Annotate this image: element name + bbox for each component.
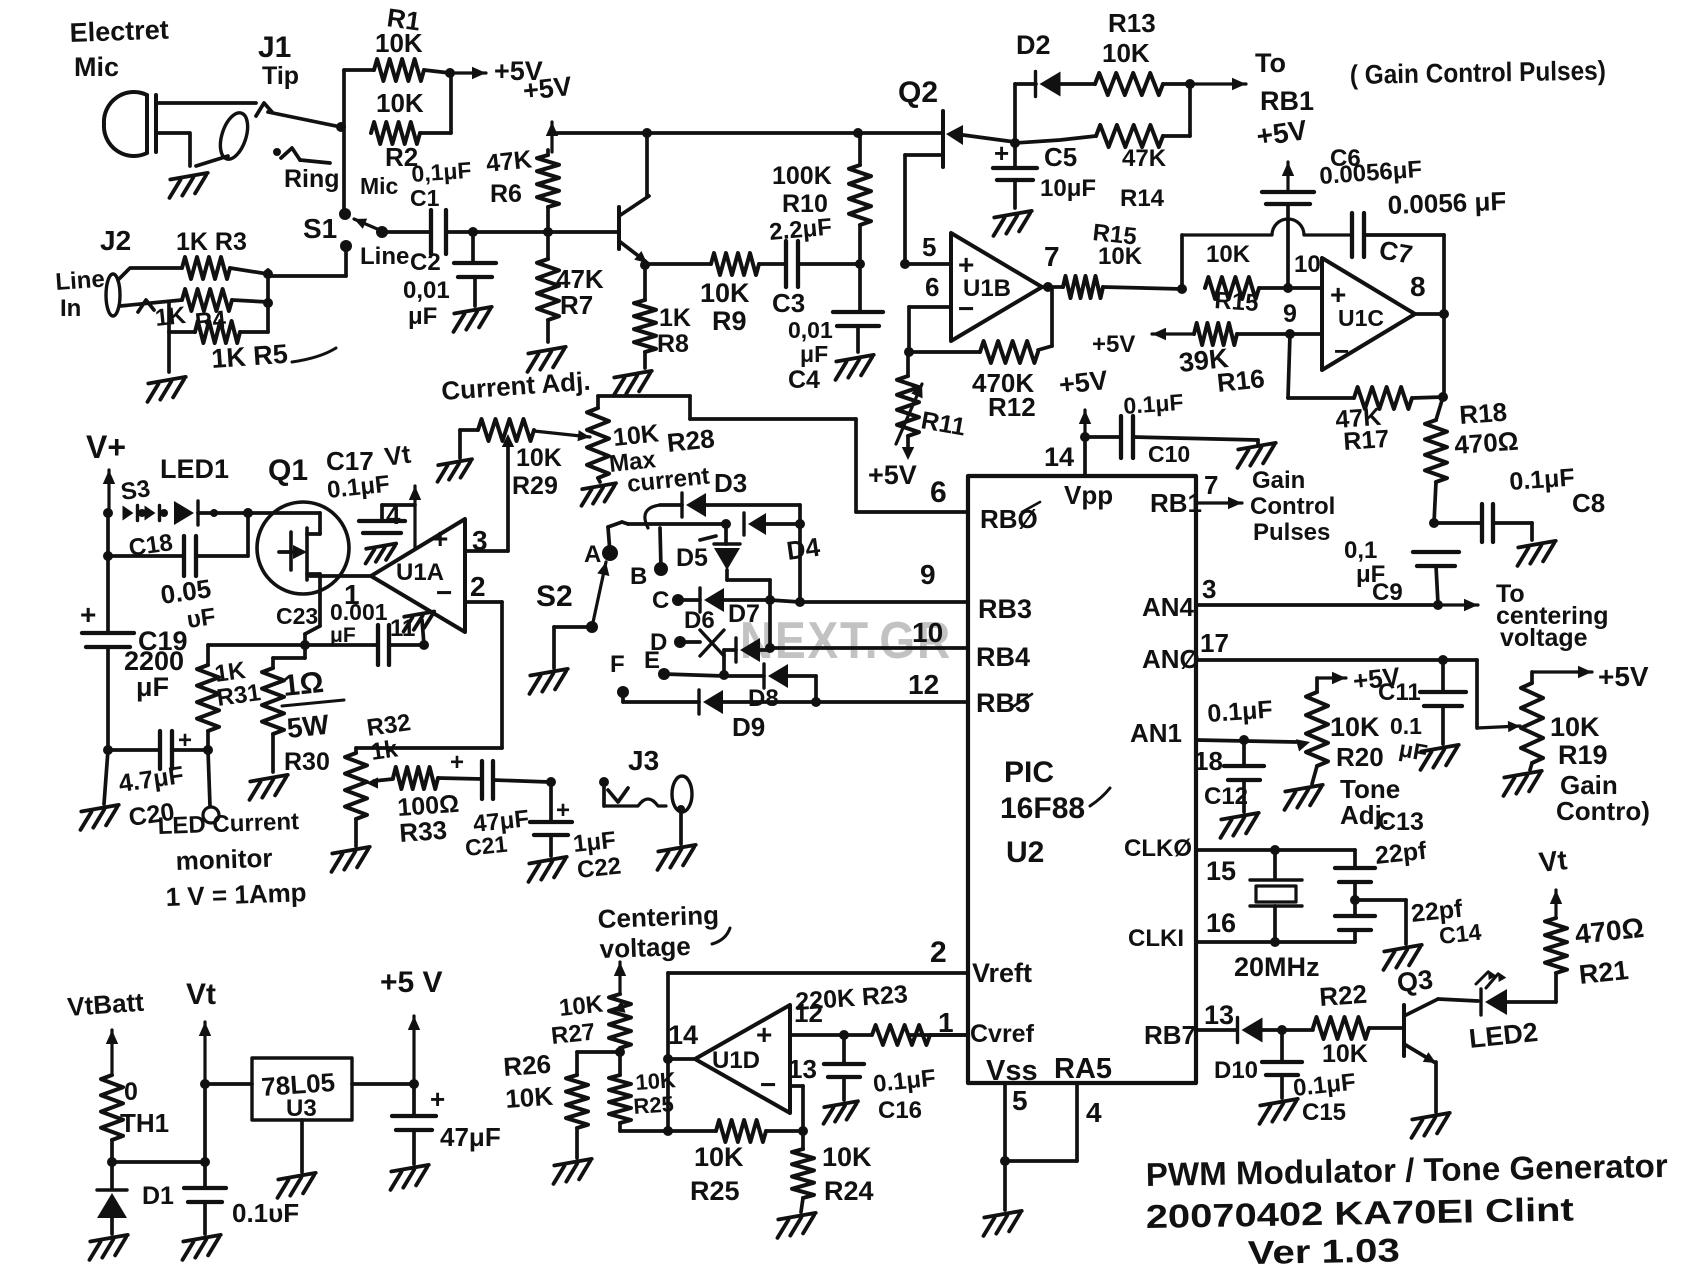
wire D2 branch up [1013, 84, 1017, 143]
resistor R15b [1205, 277, 1259, 299]
node R10 top rail [853, 128, 863, 138]
wire J2 tip to R3 [118, 268, 182, 280]
svg-text:0,01: 0,01 [788, 317, 833, 343]
svg-text:C4: C4 [788, 366, 820, 394]
capacitor C15 [1280, 1030, 1284, 1060]
wire pin12 [790, 1033, 844, 1037]
svg-text:7: 7 [1204, 470, 1218, 500]
svg-text:R6: R6 [490, 180, 522, 208]
J1 ring contact [273, 148, 281, 156]
svg-text:D9: D9 [732, 712, 765, 742]
svg-text:−: − [1334, 336, 1349, 366]
capacitor C4 [858, 264, 862, 310]
capacitor C9 [1413, 550, 1459, 554]
node U1C output [1439, 309, 1449, 319]
wire C7 to output node [1442, 235, 1446, 314]
thermistor TH1 [101, 1075, 123, 1140]
J1 tip contact [256, 103, 272, 116]
node Q collector rail [642, 128, 652, 138]
svg-text:RB4: RB4 [976, 642, 1030, 672]
wire C7 rail with hop [1182, 219, 1352, 235]
ground S2 [526, 669, 570, 694]
capacitor C1 [430, 230, 431, 234]
capacitor C7 [1350, 213, 1354, 257]
resistor R4 [182, 289, 232, 311]
svg-text:10K: 10K [516, 444, 562, 472]
svg-text:Cvref: Cvref [970, 1020, 1035, 1048]
svg-text:22pf: 22pf [1374, 837, 1429, 870]
svg-text:0.0056 μF: 0.0056 μF [1387, 186, 1507, 220]
svg-text:R13: R13 [1108, 8, 1156, 38]
svg-text:ANØ: ANØ [1142, 644, 1200, 674]
svg-text:R16: R16 [1215, 363, 1266, 398]
ground C17 [363, 543, 399, 563]
resistor R7 [537, 259, 559, 320]
svg-text:Vt: Vt [1537, 844, 1568, 878]
arrow Vt [203, 1022, 206, 1084]
svg-text:U3: U3 [286, 1095, 317, 1122]
node C18 column [243, 508, 253, 518]
svg-text:R9: R9 [712, 306, 747, 336]
svg-text:9: 9 [1283, 300, 1297, 328]
resistor R31 [203, 745, 213, 755]
ground C22 [525, 857, 569, 882]
ground regulator [274, 1173, 318, 1198]
ground R28 [579, 483, 619, 506]
wire emitter to R9 [645, 262, 711, 266]
wire CLKI row [1196, 940, 1355, 944]
wire V+ rail to ground [104, 750, 108, 804]
svg-text:10: 10 [1294, 251, 1321, 278]
wire RB4 row [770, 646, 968, 650]
wire bottom rail [620, 1129, 716, 1133]
svg-text:C3: C3 [772, 288, 805, 318]
svg-text:voltage: voltage [599, 931, 691, 964]
svg-text:0: 0 [124, 1078, 138, 1106]
wire regulator ground [300, 1120, 304, 1172]
svg-text:Vss: Vss [986, 1055, 1038, 1087]
node C20 row [103, 745, 113, 755]
svg-text:0,01: 0,01 [403, 277, 450, 304]
arrow To RB1 [1190, 82, 1246, 85]
node C row [765, 595, 775, 605]
ground C4 [832, 355, 876, 380]
node C13/C14 [1350, 895, 1360, 905]
diode D10 [1242, 1018, 1263, 1043]
svg-text:−: − [760, 1069, 776, 1100]
svg-text:R33: R33 [398, 815, 448, 848]
ground 47uF [387, 1165, 431, 1190]
node signal/R6/R7 [543, 227, 553, 237]
ground Q3 [1408, 1113, 1452, 1138]
svg-text:Electret: Electret [69, 15, 169, 48]
svg-text:U2: U2 [1006, 836, 1044, 869]
svg-text:AN4: AN4 [1142, 592, 1195, 622]
svg-text:RB1: RB1 [1260, 86, 1314, 116]
wire +5V rail from R6 column [550, 131, 647, 135]
svg-text:3: 3 [1202, 574, 1216, 604]
svg-text:47K: 47K [1122, 145, 1167, 172]
node R17/R18 [1438, 392, 1448, 402]
resistor R17 feedback [1288, 334, 1290, 398]
node RB5 [811, 697, 821, 707]
svg-text:1K R5: 1K R5 [210, 339, 288, 374]
svg-text:Vreft: Vreft [972, 958, 1032, 988]
node Q emitter [640, 260, 650, 270]
svg-text:20MHz: 20MHz [1234, 952, 1320, 982]
resistor R14 row [1015, 136, 1096, 143]
node C22 [546, 777, 556, 787]
svg-text:S3: S3 [119, 475, 152, 506]
svg-text:D3: D3 [714, 468, 747, 498]
svg-text:RB7: RB7 [1144, 1020, 1196, 1050]
capacitor C6 [1262, 190, 1314, 194]
svg-text:4: 4 [1086, 1097, 1102, 1128]
crystal Y1 20MHz [1273, 850, 1277, 878]
ground R30 [246, 775, 290, 800]
wire regulator output [352, 1082, 414, 1086]
svg-text:10K: 10K [1550, 712, 1600, 742]
resistor R24 [801, 1131, 805, 1149]
pot R28 [587, 408, 609, 478]
resistor R10 [849, 165, 871, 225]
node D10/C15 [1277, 1025, 1287, 1035]
svg-text:CLKI: CLKI [1128, 925, 1184, 952]
capacitor C16 [842, 1035, 846, 1062]
arrow +5V supply [412, 1016, 415, 1084]
svg-text:47μF: 47μF [440, 1122, 501, 1152]
wire pin10 to U1C [1288, 286, 1322, 290]
svg-text:1K R3: 1K R3 [176, 228, 247, 256]
svg-text:Vt: Vt [186, 978, 216, 1011]
svg-text:10K: 10K [822, 1142, 872, 1172]
svg-text:J1: J1 [258, 31, 291, 64]
capacitor C8 [1434, 521, 1482, 525]
svg-text:U1C: U1C [1338, 305, 1384, 331]
pot R27 [609, 994, 631, 1048]
svg-text:+5V: +5V [521, 71, 573, 106]
ground pin11 [401, 611, 437, 631]
svg-text:20070402 KA70EI Clint: 20070402 KA70EI Clint [1145, 1191, 1574, 1235]
svg-text:0.1μF: 0.1μF [1123, 389, 1185, 419]
connector J3 [599, 777, 609, 787]
svg-text:Vpp: Vpp [1064, 480, 1113, 510]
svg-text:0.001: 0.001 [330, 599, 388, 625]
wire TH1 to Vt rail [112, 1160, 205, 1164]
resistor R18 [1425, 420, 1447, 482]
svg-text:V+: V+ [86, 429, 126, 465]
wiper arrow into R28 [534, 431, 590, 437]
svg-text:Pulses: Pulses [1253, 519, 1330, 546]
svg-text:2.2μF: 2.2μF [768, 214, 833, 246]
wire Vpp +5V [1080, 432, 1090, 442]
svg-text:C12: C12 [1204, 783, 1248, 810]
svg-text:R10: R10 [782, 190, 828, 218]
wire U1A output to Q1 [310, 574, 371, 578]
svg-text:10K: 10K [1322, 1040, 1368, 1068]
svg-text:C16: C16 [878, 1097, 922, 1124]
wire RB0 row from R28 rail [854, 419, 858, 512]
svg-text:+5V: +5V [1598, 661, 1649, 692]
svg-text:0.1: 0.1 [1390, 713, 1422, 739]
svg-text:16F88: 16F88 [1000, 792, 1085, 825]
node R27 bottom [615, 1047, 625, 1057]
svg-text:6: 6 [930, 476, 947, 509]
resistor R5 [195, 321, 240, 343]
svg-text:9: 9 [920, 559, 936, 590]
wire RB5 row [816, 700, 968, 704]
svg-text:Contro): Contro) [1556, 796, 1650, 826]
ground R32 [328, 847, 372, 872]
J2 jack [106, 274, 120, 316]
ground C10 right [1234, 443, 1278, 468]
wire pin3 to R29 wiper [506, 442, 510, 551]
ground D1 [86, 1235, 130, 1260]
diode D1 [110, 1162, 114, 1188]
contact C [672, 594, 684, 606]
svg-text:14: 14 [1044, 442, 1074, 472]
svg-text:Ver 1.03: Ver 1.03 [1247, 1231, 1400, 1271]
svg-text:LED1: LED1 [160, 454, 229, 484]
wire rail up to C7 row [1180, 235, 1184, 289]
wire pin11 ground [422, 620, 424, 645]
svg-text:10K: 10K [1330, 712, 1380, 742]
svg-text:Ring: Ring [284, 165, 340, 193]
wire pin13 [790, 1084, 803, 1088]
diode D9 [623, 700, 699, 704]
svg-text:Q3: Q3 [1395, 964, 1434, 998]
svg-text:+: + [994, 138, 1009, 168]
capacitor C22 [549, 782, 553, 820]
svg-text:R24: R24 [824, 1176, 874, 1206]
svg-text:U1B: U1B [963, 275, 1011, 302]
svg-text:1K: 1K [659, 304, 691, 332]
svg-text:+5V: +5V [1092, 331, 1135, 358]
resistor R25 horizontal [716, 1120, 766, 1142]
svg-text:R26: R26 [502, 1049, 552, 1082]
svg-text:Gain: Gain [1252, 467, 1305, 494]
svg-text:16: 16 [1206, 908, 1236, 938]
resistor R9 [711, 253, 759, 275]
pot R32 [354, 748, 358, 753]
wire C23 row [208, 643, 305, 647]
svg-text:13: 13 [1204, 1000, 1234, 1030]
contact B [654, 562, 668, 576]
svg-text:C15: C15 [1302, 1099, 1346, 1126]
capacitor C2 [471, 232, 475, 261]
svg-text:In: In [60, 295, 81, 322]
svg-text:μF: μF [408, 303, 437, 330]
wire to R26 [577, 1050, 620, 1054]
svg-text:17: 17 [1200, 628, 1229, 658]
svg-text:13: 13 [788, 1054, 817, 1084]
wire AN4 row [1196, 603, 1438, 607]
node R4 right / vertical join [263, 298, 273, 308]
svg-text:( Gain Control Pulses): ( Gain Control Pulses) [1350, 56, 1606, 90]
ground R7 [524, 347, 568, 372]
svg-text:5: 5 [1012, 1085, 1028, 1116]
svg-text:0.1μF: 0.1μF [1206, 695, 1273, 727]
svg-text:+5V: +5V [1057, 365, 1109, 400]
svg-text:0.1μF: 0.1μF [1508, 463, 1575, 495]
svg-text:Q2: Q2 [898, 76, 938, 109]
resistor R21 [1554, 973, 1558, 1002]
node U1B output [1043, 282, 1053, 292]
svg-text:R12: R12 [988, 392, 1036, 422]
diode D8 [724, 674, 764, 678]
wire J2 to R4 [120, 300, 182, 306]
svg-text:F: F [610, 651, 625, 678]
node C2 tap [468, 227, 478, 237]
svg-text:10K: 10K [558, 990, 605, 1022]
resistor R30 [303, 645, 307, 658]
wire R5 to ground [167, 332, 171, 372]
svg-text:R18: R18 [1458, 397, 1508, 430]
svg-text:C7: C7 [1377, 234, 1415, 269]
wire R32 to ground [354, 819, 358, 846]
svg-text:1 V = 1Amp: 1 V = 1Amp [165, 877, 307, 912]
svg-text:C23: C23 [276, 603, 318, 629]
pot R19 [1521, 683, 1543, 763]
svg-text:0.1υF: 0.1υF [232, 1198, 299, 1228]
svg-text:0,1μF: 0,1μF [411, 157, 473, 187]
arrow to centering voltage [1438, 603, 1478, 606]
resistor R25 vertical [609, 1075, 631, 1123]
switch S1 wiper [354, 219, 382, 231]
transistor Q mic-amp [617, 207, 621, 249]
resistor R33 [374, 779, 393, 781]
op-amp U1A [371, 519, 465, 632]
svg-text:14: 14 [668, 1020, 698, 1050]
svg-text:Centering: Centering [597, 900, 719, 934]
svg-text:υF: υF [185, 603, 217, 634]
svg-text:To: To [1255, 48, 1286, 78]
node pin5 [900, 259, 910, 269]
ground R29 [435, 459, 475, 482]
contact D [674, 636, 686, 648]
node R15a/R15b/C7 rail [1177, 284, 1187, 294]
node D7 column [765, 643, 775, 653]
svg-text:U1A: U1A [396, 559, 444, 586]
svg-text:μF: μF [800, 341, 828, 367]
capacitor 0.1uF supply [203, 1162, 207, 1186]
svg-text:8: 8 [1410, 271, 1426, 302]
svg-text:Vt: Vt [383, 439, 413, 472]
node Q2 out / C5 / D2 [1010, 138, 1020, 148]
IC U2 PIC16F88 body [968, 476, 1196, 1083]
svg-text:5W: 5W [285, 709, 331, 744]
svg-text:470Ω: 470Ω [1453, 426, 1519, 460]
svg-text:100K: 100K [772, 162, 832, 190]
svg-text:J3: J3 [628, 745, 659, 776]
svg-text:Mic: Mic [74, 52, 119, 82]
svg-text:C: C [652, 587, 669, 614]
svg-text:CLKØ: CLKØ [1124, 835, 1192, 862]
svg-text:R25: R25 [690, 1176, 740, 1206]
svg-text:10K: 10K [700, 278, 750, 308]
wire pin6 [909, 305, 951, 309]
node AN4/C9 [1433, 600, 1443, 610]
matrix column right [798, 505, 802, 602]
svg-text:RB1: RB1 [1150, 488, 1202, 518]
svg-text:10K: 10K [375, 28, 423, 58]
svg-text:10: 10 [912, 617, 943, 648]
svg-text:D4: D4 [785, 532, 823, 566]
svg-text:C21: C21 [464, 831, 509, 861]
svg-text:R29: R29 [512, 472, 558, 500]
svg-text:+5V: +5V [868, 460, 917, 490]
svg-text:Tip: Tip [262, 62, 299, 90]
svg-text:R28: R28 [665, 423, 716, 458]
resistor R1 [344, 68, 374, 72]
svg-text:2: 2 [930, 936, 947, 969]
svg-text:R7: R7 [560, 290, 593, 320]
switch S1 line contact [340, 240, 352, 252]
svg-text:1k: 1k [369, 735, 400, 766]
op-amp U1D [668, 1057, 695, 1061]
svg-text:5: 5 [922, 232, 936, 262]
op-amp U1C [1322, 258, 1415, 370]
ground J3 [654, 845, 698, 870]
arrow centering [618, 962, 621, 994]
node R13/R14 [1185, 79, 1195, 89]
node AN1/C12 [1239, 735, 1249, 745]
node C8/C9 [1429, 518, 1439, 528]
svg-text:10K: 10K [1206, 241, 1251, 268]
ground R20 [1281, 785, 1325, 810]
svg-text:C2: C2 [410, 249, 441, 276]
resistor R16 [1152, 332, 1194, 335]
svg-text:7: 7 [1044, 241, 1060, 272]
svg-text:15: 15 [1206, 856, 1236, 886]
svg-text:AN1: AN1 [1130, 718, 1182, 748]
op-amp U1B [951, 233, 1042, 341]
capacitor C12 [1242, 740, 1246, 764]
diode D6 [678, 598, 700, 602]
svg-text:+5V: +5V [1351, 661, 1402, 696]
wire Vss RA5 bottom [1003, 1083, 1007, 1161]
ground R19 [1500, 771, 1544, 796]
wire CLKO row [1196, 848, 1355, 852]
LED current monitor terminal [203, 807, 219, 823]
svg-text:1Ω: 1Ω [281, 666, 325, 703]
node feedback [904, 347, 914, 357]
svg-text:C1: C1 [410, 185, 440, 211]
svg-text:Mic: Mic [360, 173, 399, 199]
svg-text:R20: R20 [1336, 742, 1384, 772]
wire Q3 emitter ground [1434, 1062, 1438, 1112]
ground C11 [1417, 745, 1461, 770]
wire AN0 to R19 wiper [1475, 660, 1479, 728]
wire AN0 row [1196, 658, 1477, 662]
wire R4 row to R5 [167, 302, 171, 332]
svg-text:D7: D7 [728, 600, 760, 628]
J2 ring mark [138, 300, 154, 312]
svg-text:E: E [644, 647, 660, 674]
svg-text:R30: R30 [284, 748, 330, 776]
svg-text:+: + [430, 1084, 445, 1114]
wire J1 to R1/R2 left rail [336, 122, 346, 132]
wiper arrow R20 [1296, 739, 1310, 751]
svg-text:S1: S1 [303, 213, 337, 244]
svg-text:C13: C13 [1378, 808, 1424, 836]
ground supply cap [179, 1235, 223, 1260]
svg-text:monitor: monitor [175, 843, 273, 876]
regulator U3 78L05 [252, 1058, 352, 1120]
svg-text:+: + [450, 749, 464, 776]
svg-text:B: B [630, 563, 647, 590]
svg-text:D2: D2 [1016, 30, 1051, 60]
